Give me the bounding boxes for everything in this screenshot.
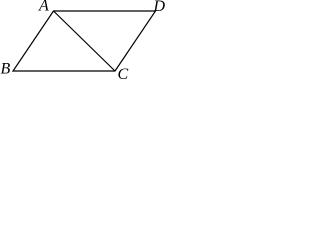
svg-text:B: B xyxy=(1,61,11,78)
svg-text:A: A xyxy=(38,0,49,15)
svg-text:C: C xyxy=(118,66,129,79)
svg-text:D: D xyxy=(153,0,166,15)
